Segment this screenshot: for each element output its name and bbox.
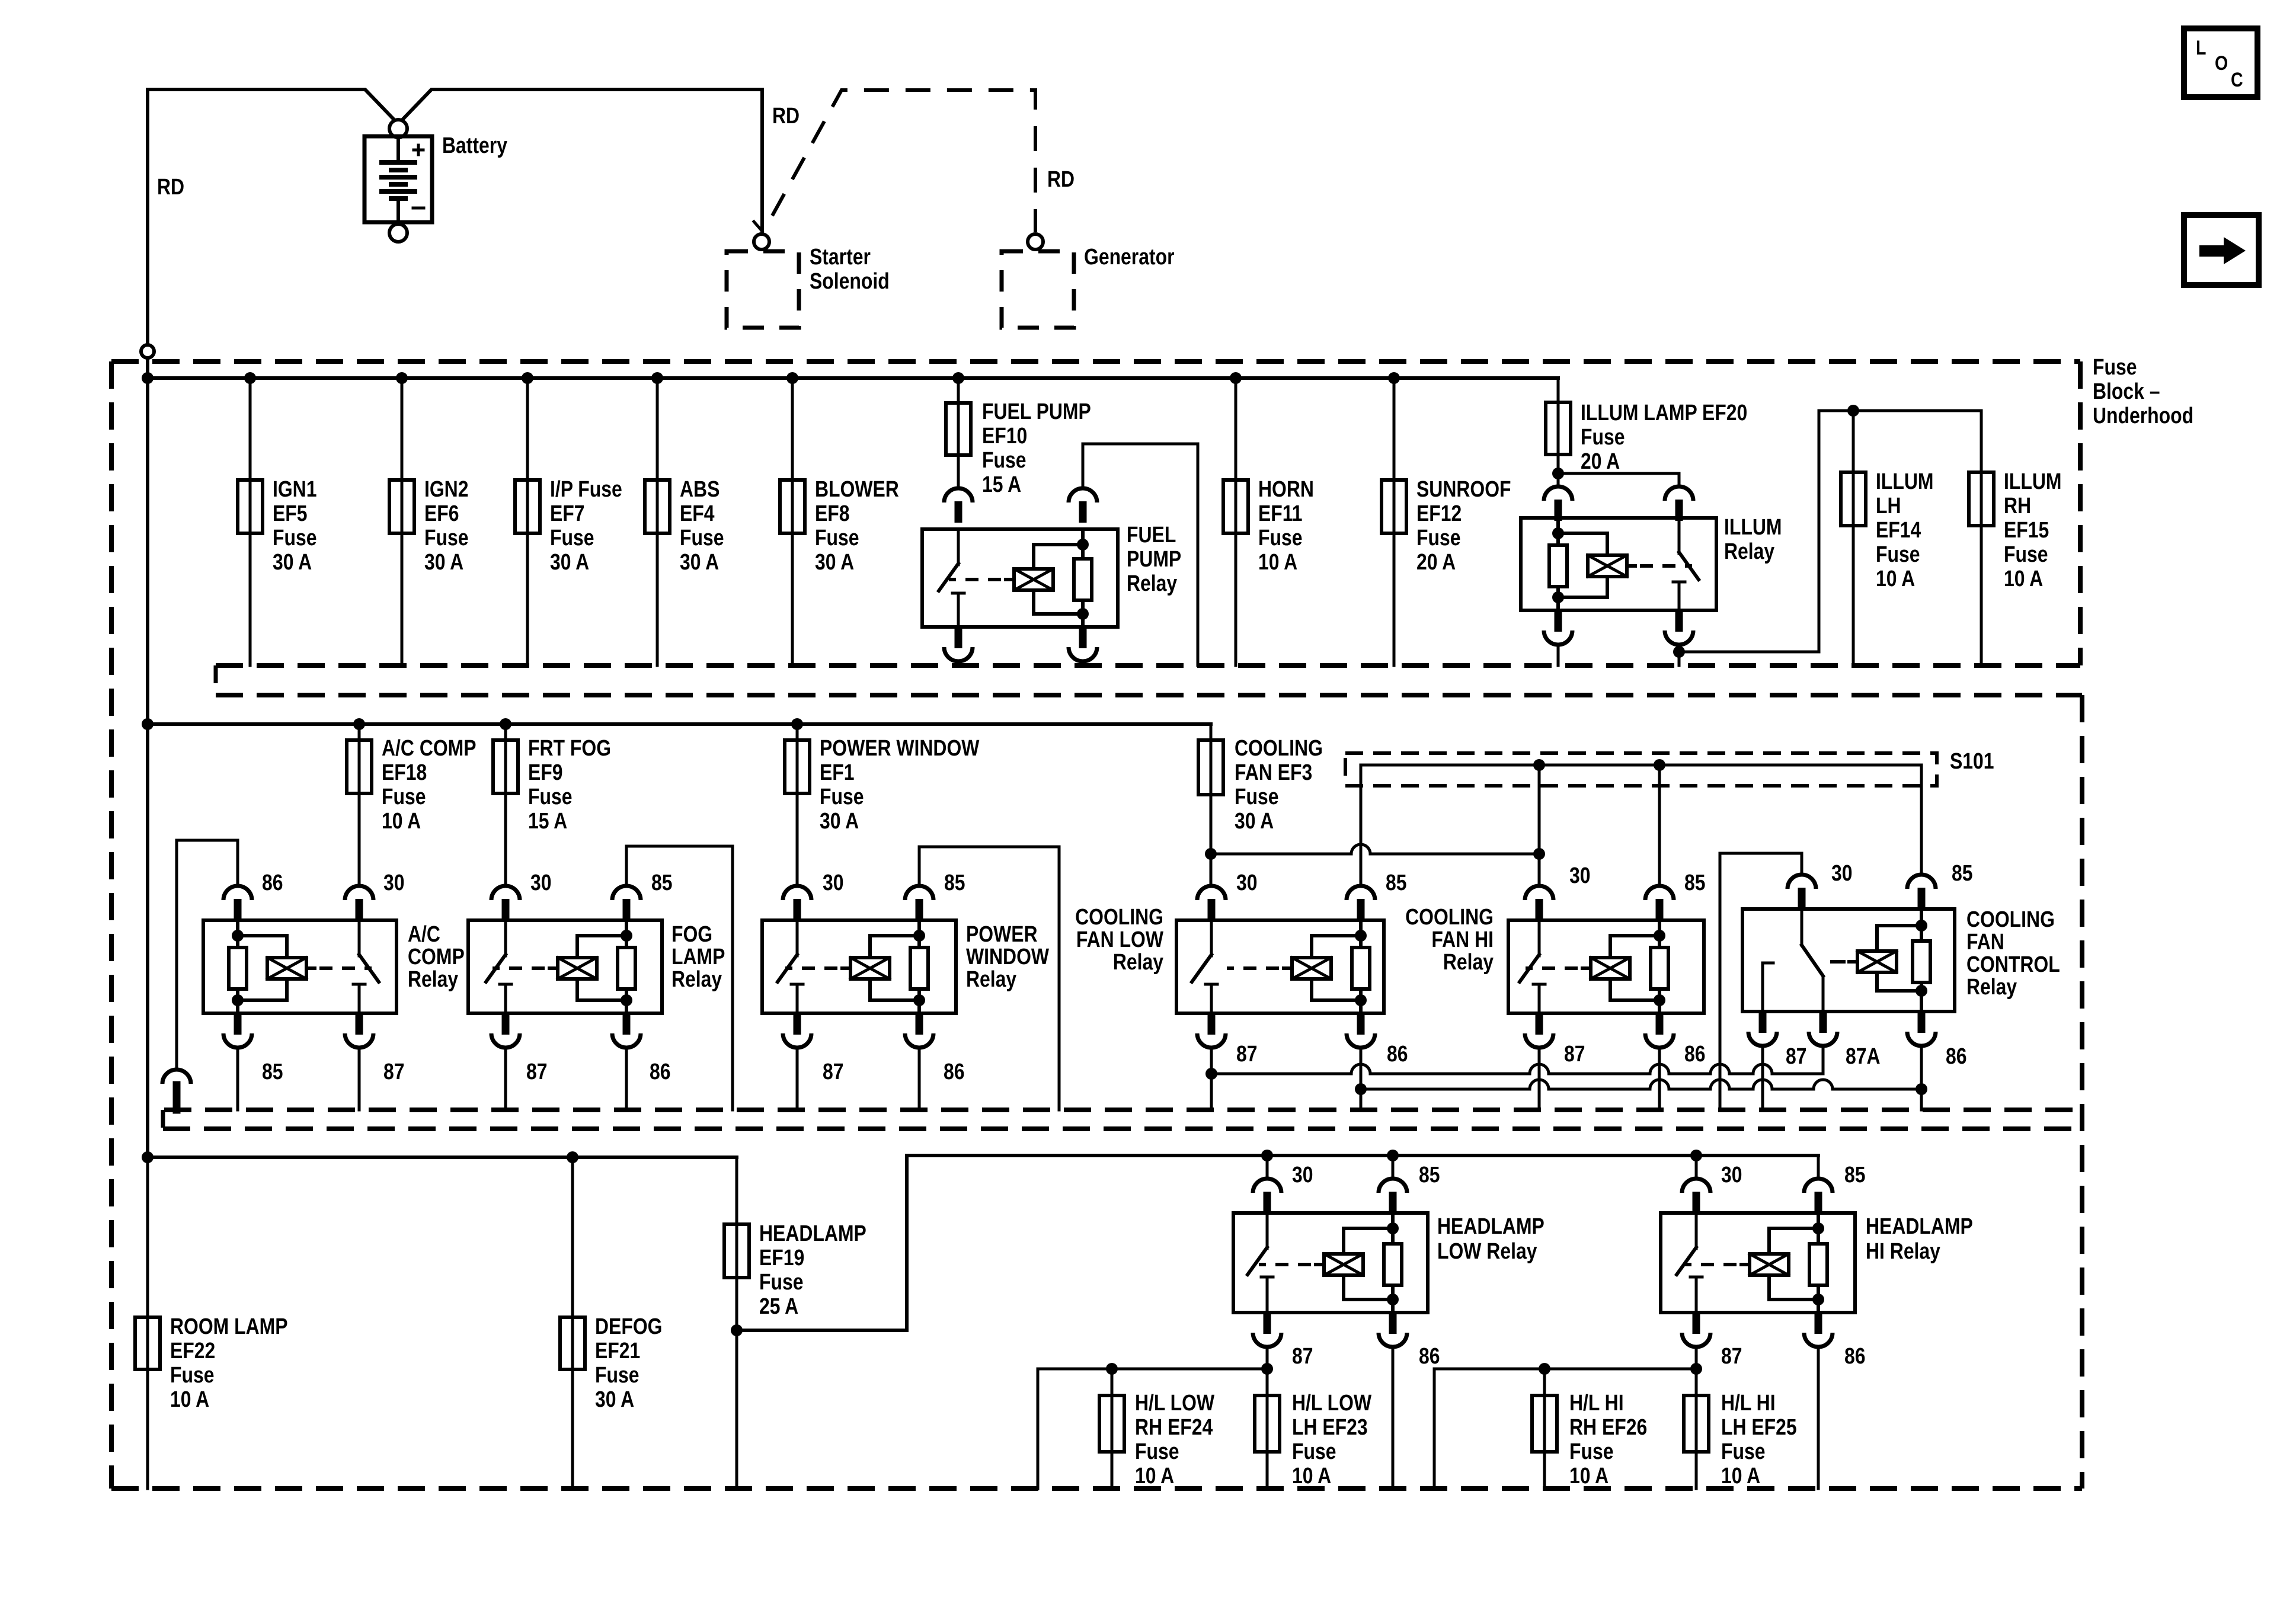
battery minus sign: [413, 207, 424, 210]
relay U-FANCONTROL box+internals: [1742, 909, 1955, 1012]
svg-text:30 A: 30 A: [550, 549, 589, 574]
wire FAN HI 86 to boundary: [1658, 1048, 1661, 1110]
label pin 85 HL-HI: [1844, 1162, 1866, 1187]
label fuse EF10: [982, 399, 1091, 497]
svg-text:Underhood: Underhood: [2093, 403, 2193, 428]
pin fuel pump relay 30-side top: [944, 488, 973, 523]
fuse block outer dashed left edge: [109, 361, 114, 1489]
svg-text:85: 85: [1952, 860, 1973, 885]
wire SUNROOF fuse column: [1393, 378, 1396, 665]
pin ILLUM relay switch bottom: [1665, 610, 1693, 645]
svg-text:87: 87: [823, 1059, 844, 1084]
svg-text:L: L: [2196, 37, 2206, 59]
svg-text:Relay: Relay: [1966, 974, 2017, 999]
battery B- terminal circle: [389, 224, 407, 242]
fuse ILLUM LAMP EF20: [1546, 402, 1571, 454]
label ILLUM Relay: [1724, 514, 1782, 564]
wire FOG 87 to boundary: [504, 1048, 507, 1110]
svg-text:COOLING: COOLING: [1075, 904, 1163, 929]
svg-text:87: 87: [1721, 1343, 1742, 1368]
svg-text:85: 85: [262, 1059, 283, 1084]
node ILLUM LH branch junction: [1847, 405, 1859, 417]
node headlamp feed junction HI 30: [1690, 1150, 1702, 1161]
label fuse IGN2: [424, 476, 468, 574]
pin HEADLAMP HI relay 30 top: [1682, 1179, 1710, 1213]
fuse ROOM LAMP EF22: [135, 1317, 160, 1369]
label pin 86 HL-LOW: [1419, 1343, 1440, 1368]
svg-text:HEADLAMP: HEADLAMP: [1437, 1214, 1544, 1238]
svg-text:15 A: 15 A: [982, 472, 1021, 497]
fuse I/P EF7: [515, 480, 540, 533]
svg-text:87: 87: [383, 1059, 405, 1084]
label pin 87 A/C: [383, 1059, 405, 1084]
svg-text:DEFOG: DEFOG: [595, 1314, 662, 1339]
svg-text:10 A: 10 A: [382, 808, 421, 833]
svg-text:LOW Relay: LOW Relay: [1437, 1238, 1537, 1263]
svg-text:10 A: 10 A: [170, 1387, 209, 1411]
wire S101 bus: [1361, 764, 1921, 767]
label fuse EF3: [1235, 735, 1323, 833]
svg-text:Fuse: Fuse: [1292, 1439, 1336, 1464]
label fuse HORN: [1258, 476, 1314, 574]
fuse HORN EF11: [1223, 480, 1248, 533]
fuse HEADLAMP EF19: [724, 1224, 749, 1278]
label pin 85 FAN LOW: [1386, 870, 1407, 895]
label pin 87 FAN HI: [1564, 1041, 1585, 1066]
svg-text:Fuse: Fuse: [1569, 1439, 1613, 1464]
fuse POWER WINDOW EF1: [785, 740, 810, 793]
wire EF20 column: [1557, 378, 1560, 486]
label Generator: [1084, 244, 1175, 269]
pin FAN LOW relay 85 top: [1347, 886, 1375, 920]
svg-text:EF8: EF8: [815, 501, 850, 526]
wire RD drop to starter solenoid: [754, 89, 762, 231]
svg-text:FRT FOG: FRT FOG: [528, 735, 611, 760]
svg-text:30: 30: [1236, 870, 1258, 895]
wire EF18 fuse drop: [358, 724, 361, 886]
label FOG LAMP Relay: [671, 921, 725, 991]
pin HEADLAMP LOW relay 85 top: [1379, 1179, 1407, 1213]
wire EF9 fuse drop: [504, 724, 507, 886]
wire HORN fuse column: [1235, 378, 1237, 665]
svg-text:FAN EF3: FAN EF3: [1235, 760, 1312, 785]
label fuse BLOWER: [815, 476, 899, 574]
svg-text:86: 86: [1844, 1343, 1866, 1368]
wire LOW 87 output: [1261, 1347, 1273, 1489]
pin FAN CONTROL relay 87A bottom: [1809, 1012, 1837, 1046]
pin FAN CONTROL relay 85 top: [1907, 875, 1936, 909]
svg-text:EF21: EF21: [595, 1338, 640, 1363]
wire EF20 to ILLUM relay switch side: [1558, 473, 1679, 486]
node bus2 left junction: [142, 718, 154, 730]
label HEADLAMP HI Relay: [1866, 1214, 1973, 1263]
svg-text:POWER: POWER: [966, 921, 1038, 946]
pin ILLUM relay coil top: [1544, 486, 1572, 521]
label pin 85 FOG: [651, 870, 673, 895]
svg-text:30 A: 30 A: [815, 549, 854, 574]
wire ILLUM RH fuse column: [1980, 472, 1983, 665]
node bus1 junction BLOWER: [786, 372, 798, 384]
node bus2 junction FRT FOG: [500, 718, 511, 730]
wire EF19 column: [736, 1157, 738, 1489]
node EF19 output junction: [731, 1324, 743, 1336]
pin FAN CONTROL relay 87 bottom: [1748, 1012, 1777, 1046]
svg-text:COMP: COMP: [408, 944, 465, 969]
svg-text:Fuse: Fuse: [982, 447, 1026, 472]
wire dashed RD to generator: [772, 90, 1035, 232]
pin A/C relay 87 bottom: [345, 1013, 373, 1048]
wire A/C 87 to boundary: [358, 1048, 361, 1110]
svg-text:85: 85: [1684, 870, 1706, 895]
wire IGN2 fuse column: [401, 378, 404, 665]
label pin 85 FAN CONTROL: [1952, 860, 1973, 885]
svg-text:LH EF23: LH EF23: [1292, 1414, 1368, 1439]
svg-text:RD: RD: [772, 103, 800, 128]
svg-text:Fuse: Fuse: [595, 1362, 639, 1387]
svg-text:IGN1: IGN1: [273, 476, 316, 501]
node bus1 left junction: [142, 372, 154, 384]
wire fan net 86-86 link: [1361, 1080, 1921, 1089]
pin FOG relay 87 bottom: [491, 1013, 520, 1048]
label pin 86 FAN HI: [1684, 1041, 1706, 1066]
svg-text:O: O: [2215, 52, 2228, 75]
wire ROOM LAMP column: [146, 1157, 149, 1489]
battery cells: [382, 137, 415, 221]
pin fuel pump relay 87-side bottom: [944, 627, 973, 661]
label fuse EF24: [1135, 1390, 1215, 1488]
svg-text:EF9: EF9: [528, 760, 563, 785]
wire BLOWER fuse column: [791, 378, 794, 665]
svg-text:Fuse: Fuse: [550, 525, 594, 550]
pin HEADLAMP HI relay 85 top: [1804, 1179, 1833, 1213]
label pin 30 FAN CONTROL: [1831, 860, 1853, 885]
label pin 86 PW: [944, 1059, 965, 1084]
generator box: [1002, 251, 1074, 328]
svg-text:FOG: FOG: [671, 921, 712, 946]
label RD (starter wire): [772, 103, 800, 128]
svg-text:25 A: 25 A: [759, 1294, 798, 1318]
fuse ILLUM LH EF14: [1841, 472, 1866, 526]
svg-text:H/L LOW: H/L LOW: [1292, 1390, 1372, 1415]
wire A/C 86 feed from boundary: [177, 840, 238, 1070]
label COOLING FAN CONTROL Relay: [1966, 907, 2060, 999]
svg-text:Fuse: Fuse: [759, 1269, 803, 1294]
wire left trunk row2 to row3: [146, 724, 149, 1157]
legend arrow box: [2184, 215, 2259, 285]
fuse COOLING FAN EF3: [1198, 740, 1223, 795]
label pin 86 HL-HI: [1844, 1343, 1866, 1368]
pin HEADLAMP LOW relay 87 bottom: [1253, 1313, 1281, 1347]
svg-text:Block –: Block –: [2093, 379, 2160, 404]
wire FAN LOW 86 to boundary: [1355, 1048, 1367, 1110]
svg-text:Relay: Relay: [1127, 571, 1178, 596]
label pin 87 FOG: [526, 1059, 548, 1084]
label S101: [1950, 748, 1994, 773]
svg-text:30: 30: [1831, 860, 1853, 885]
svg-text:85: 85: [651, 870, 673, 895]
svg-text:30: 30: [1292, 1162, 1313, 1187]
pin FAN HI relay 85 top: [1645, 886, 1674, 920]
svg-text:H/L HI: H/L HI: [1721, 1390, 1776, 1415]
svg-text:EF14: EF14: [1876, 517, 1921, 542]
fuse SUNROOF EF12: [1382, 480, 1406, 533]
wire FAN CONTROL 87A drop: [1822, 1046, 1825, 1074]
svg-text:HORN: HORN: [1258, 476, 1314, 501]
svg-text:30: 30: [383, 870, 405, 895]
svg-text:ILLUM: ILLUM: [1724, 514, 1782, 539]
fuse block dashed right edge (middle+bottom box): [2080, 695, 2084, 1489]
wire ABS fuse column: [656, 378, 659, 665]
wire HI 30 drop: [1538, 854, 1541, 886]
svg-text:RH EF26: RH EF26: [1569, 1414, 1647, 1439]
svg-text:EF1: EF1: [820, 760, 855, 785]
wire FAN CONTROL 86 to boundary: [1916, 1046, 1927, 1110]
label pin 30 FAN LOW: [1236, 870, 1258, 895]
svg-text:30 A: 30 A: [680, 549, 719, 574]
svg-text:Fuse: Fuse: [2004, 542, 2048, 566]
svg-text:C: C: [2231, 69, 2243, 91]
svg-text:A/C COMP: A/C COMP: [382, 735, 477, 760]
svg-text:ILLUM: ILLUM: [1876, 469, 1933, 494]
fuse IGN2 EF6: [389, 480, 414, 533]
wire left trunk row1 to row2: [146, 378, 149, 724]
node headlamp feed junction LOW 30: [1261, 1150, 1273, 1161]
pin HEADLAMP HI relay 87 bottom: [1682, 1313, 1710, 1347]
label fuse EF26: [1569, 1390, 1647, 1488]
svg-text:87A: 87A: [1846, 1044, 1881, 1068]
relay U-FANHI box+internals: [1508, 920, 1704, 1013]
pin FAN LOW relay 87 bottom: [1197, 1013, 1226, 1048]
label fuse EF1: [820, 735, 980, 833]
svg-text:87: 87: [1786, 1044, 1807, 1068]
label fuse EF14: [1876, 469, 1933, 591]
node bus2 junction A/C: [353, 718, 365, 730]
svg-text:85: 85: [1844, 1162, 1866, 1187]
wire fuel pump 87 to boundary: [957, 661, 960, 665]
label fuse EF22: [170, 1314, 288, 1411]
node bus2 junction POWER WINDOW: [791, 718, 803, 730]
svg-text:10 A: 10 A: [2004, 566, 2043, 591]
svg-text:COOLING: COOLING: [1966, 907, 2055, 932]
wire FAN CONTROL 87 to boundary: [1761, 1046, 1764, 1110]
pin FAN LOW relay 86 bottom: [1347, 1013, 1375, 1048]
label RD (left wire): [157, 174, 184, 199]
bus row1 from battery: [148, 376, 1558, 380]
pin A/C relay 86 top: [223, 886, 252, 920]
svg-text:30: 30: [1721, 1162, 1742, 1187]
legend LOC letters: [2196, 37, 2243, 91]
label pin 87 HL-LOW: [1292, 1343, 1313, 1368]
wire LOW 87 to EF24: [1038, 1363, 1267, 1489]
svg-text:86: 86: [1684, 1041, 1706, 1066]
fuse block dashed right edge (top box): [2078, 361, 2083, 665]
wire battery positive feed (top bus): [148, 89, 762, 120]
pin fuel pump relay 85-side bottom: [1069, 627, 1097, 661]
svg-text:BLOWER: BLOWER: [815, 476, 899, 501]
svg-text:Fuse: Fuse: [1876, 542, 1920, 566]
svg-text:86: 86: [1387, 1041, 1408, 1066]
fuse block outer dashed top edge: [111, 359, 2080, 364]
wire EF1 fuse drop: [796, 724, 799, 886]
label Battery: [442, 133, 507, 158]
label pin 86 A/C: [262, 870, 283, 895]
wire LOW 85 drop: [1392, 1156, 1395, 1179]
svg-text:FAN HI: FAN HI: [1431, 927, 1494, 952]
svg-text:86: 86: [944, 1059, 965, 1084]
battery plus sign: [414, 145, 423, 155]
svg-text:20 A: 20 A: [1416, 549, 1456, 574]
label pin 30 HL-HI: [1721, 1162, 1742, 1187]
label fuse I/P: [550, 476, 622, 574]
relay U-ACCOMP box+internals: [203, 920, 396, 1013]
svg-text:Battery: Battery: [442, 133, 507, 158]
svg-text:EF22: EF22: [170, 1338, 215, 1363]
node bus3 left junction: [142, 1151, 154, 1163]
wire FAN HI 87 to boundary: [1538, 1048, 1541, 1110]
wire HI 87 to EF26: [1434, 1363, 1696, 1489]
pin FOG relay 85 top: [612, 886, 641, 920]
node bus1 junction IGN1: [244, 372, 256, 384]
node bus1 junction I/P: [522, 372, 533, 384]
label pin 87 FAN LOW: [1236, 1041, 1258, 1066]
svg-text:LH EF25: LH EF25: [1721, 1414, 1797, 1439]
svg-text:LAMP: LAMP: [671, 944, 725, 969]
svg-text:86: 86: [650, 1059, 671, 1084]
svg-text:10 A: 10 A: [1721, 1463, 1760, 1488]
bus row2: [148, 722, 1211, 726]
wire CONTROL 30 feed from boundary: [1720, 853, 1802, 1110]
node junction circle at fuse block entry: [141, 345, 154, 358]
svg-text:WINDOW: WINDOW: [966, 944, 1050, 969]
wire S101 drop to HI 85: [1658, 765, 1661, 886]
svg-text:EF10: EF10: [982, 423, 1027, 448]
node starter solenoid terminal circle: [754, 234, 769, 249]
label fuse EF9: [528, 735, 611, 833]
svg-text:Fuse: Fuse: [1258, 525, 1302, 550]
label fuse EF25: [1721, 1390, 1797, 1488]
svg-text:EF6: EF6: [424, 501, 459, 526]
svg-text:FUEL: FUEL: [1127, 522, 1176, 547]
node bus1 junction HORN: [1230, 372, 1242, 384]
svg-text:30: 30: [823, 870, 844, 895]
svg-text:Relay: Relay: [671, 966, 722, 991]
svg-text:87: 87: [526, 1059, 548, 1084]
pin HEADLAMP HI relay 86 bottom: [1804, 1313, 1833, 1347]
label fuse SUNROOF: [1416, 476, 1511, 574]
node headlamp feed junction LOW 85: [1387, 1150, 1399, 1161]
relay U-HLLOW box+internals: [1233, 1213, 1428, 1313]
svg-text:RD: RD: [1047, 167, 1075, 191]
wire I/P fuse column: [526, 378, 529, 665]
fuse block dashed bottom edge (top box): [216, 663, 2080, 668]
wire A/C 85 to boundary: [236, 1048, 239, 1110]
label pin 87 PW: [823, 1059, 844, 1084]
svg-text:10 A: 10 A: [1569, 1463, 1609, 1488]
fuse block dashed bottom edge (middle box): [164, 1108, 2082, 1112]
battery box: [364, 136, 432, 222]
svg-text:PUMP: PUMP: [1127, 546, 1181, 571]
relay U-HLHI box+internals: [1661, 1213, 1855, 1313]
wire PW 85 feed from boundary: [919, 847, 1059, 1110]
pin PW relay 85 top: [905, 886, 933, 920]
svg-text:EF7: EF7: [550, 501, 585, 526]
svg-text:15 A: 15 A: [528, 808, 567, 833]
wire EF10 fuse drop: [957, 378, 960, 488]
pin ILLUM relay switch top: [1665, 486, 1693, 521]
node bus1 junction ABS: [651, 372, 663, 384]
svg-text:10 A: 10 A: [1258, 549, 1297, 574]
node ILLUM output junction: [1673, 646, 1685, 658]
label fuse ABS: [680, 476, 724, 574]
relay U-ILLUM box+internals: [1521, 518, 1716, 610]
fuse IGN1 EF5: [238, 480, 263, 533]
label pin 30 FAN HI: [1569, 863, 1591, 888]
svg-text:FAN: FAN: [1966, 929, 2004, 954]
svg-text:FAN LOW: FAN LOW: [1076, 927, 1164, 952]
fuse block dashed separator jog: [214, 665, 218, 695]
svg-text:POWER WINDOW: POWER WINDOW: [820, 735, 980, 760]
pin PW relay 86 bottom: [905, 1013, 933, 1048]
svg-text:EF4: EF4: [680, 501, 715, 526]
wire EF3 column: [1210, 724, 1213, 886]
label POWER WINDOW Relay: [966, 921, 1050, 991]
wire S101 drop to HI 30: [1538, 765, 1541, 854]
svg-text:LH: LH: [1876, 493, 1901, 518]
svg-text:85: 85: [1419, 1162, 1440, 1187]
svg-text:IGN2: IGN2: [424, 476, 468, 501]
fuse H/L LOW RH EF24: [1099, 1395, 1124, 1452]
node bus1 junction FUEL PUMP: [952, 372, 964, 384]
label FUEL PUMP Relay: [1127, 522, 1181, 596]
wire EF26 drop: [1543, 1369, 1546, 1489]
svg-text:30 A: 30 A: [820, 808, 859, 833]
svg-text:Starter: Starter: [810, 244, 871, 269]
fuse block dashed top edge (middle box): [216, 693, 2082, 697]
svg-text:EF18: EF18: [382, 760, 427, 785]
wire FOG 85 feed from boundary: [626, 846, 733, 1110]
wire EF19 to headlamp relays: [737, 1156, 1818, 1330]
svg-text:10 A: 10 A: [1876, 566, 1915, 591]
svg-text:FUEL PUMP: FUEL PUMP: [982, 399, 1091, 424]
fuse H/L HI RH EF26: [1532, 1395, 1557, 1452]
pin FAN HI relay 87 bottom: [1525, 1013, 1553, 1048]
svg-text:EF5: EF5: [273, 501, 308, 526]
wire ILLUM output to LH/RH fuses: [1679, 411, 1981, 652]
svg-text:RH: RH: [2004, 493, 2031, 518]
svg-text:20 A: 20 A: [1581, 449, 1620, 473]
wire fuel pump 85 to boundary: [1082, 661, 1085, 665]
wire fan net 87-87A link: [1211, 1064, 1823, 1074]
pin A/C boundary connector: [162, 1070, 191, 1110]
svg-text:HEADLAMP: HEADLAMP: [759, 1221, 866, 1246]
label pin 85 HL-LOW: [1419, 1162, 1440, 1187]
fuse DEFOG EF21: [560, 1317, 585, 1369]
svg-text:EF11: EF11: [1258, 501, 1303, 526]
svg-text:RD: RD: [157, 174, 184, 199]
starter solenoid box: [727, 251, 799, 328]
svg-text:87: 87: [1292, 1343, 1313, 1368]
svg-text:30 A: 30 A: [273, 549, 312, 574]
label RD (generator wire): [1047, 167, 1075, 191]
pin ILLUM relay coil bottom: [1544, 610, 1572, 645]
node bus1 junction SUNROOF: [1388, 372, 1400, 384]
label pin 30 PW: [823, 870, 844, 895]
wire S101 left drop to LOW 85: [1360, 765, 1363, 886]
svg-text:30 A: 30 A: [424, 549, 463, 574]
svg-text:S101: S101: [1950, 748, 1994, 773]
wire FOG 86 to boundary: [625, 1048, 628, 1110]
svg-text:30: 30: [530, 870, 552, 895]
